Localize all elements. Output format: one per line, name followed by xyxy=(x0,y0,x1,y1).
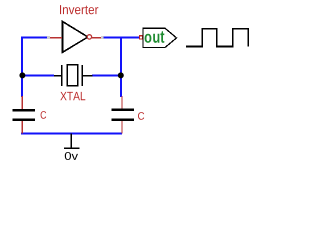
label Inverter xyxy=(60,5,98,14)
wire output horizontal xyxy=(101,37,140,39)
ground 0v symbol xyxy=(64,134,80,149)
inverter output pin stub xyxy=(92,37,101,39)
label XTAL xyxy=(60,92,85,100)
square wave annotation xyxy=(186,29,248,47)
capacitor C2 (right) xyxy=(112,96,134,134)
wire right vertical xyxy=(120,38,122,98)
inverter input pin stub xyxy=(50,37,62,39)
junction dot right xyxy=(118,72,124,78)
wire crystal row left xyxy=(22,75,54,77)
out tag xyxy=(143,28,177,47)
label C (left) xyxy=(41,111,47,119)
op-amp U1 inverter triangle xyxy=(63,22,88,53)
capacitor C1 (left) xyxy=(13,96,35,134)
wire crystal row right xyxy=(92,75,121,77)
pin end marker left xyxy=(47,36,50,39)
wire top-left horizontal xyxy=(21,37,50,39)
label C (right) xyxy=(138,112,144,120)
wire bottom horizontal xyxy=(21,133,122,135)
wire left vertical xyxy=(21,37,23,98)
out tag pin square xyxy=(140,36,143,39)
pin end marker right xyxy=(101,36,103,39)
inverter output bubble xyxy=(87,35,91,39)
label 0v xyxy=(65,152,78,160)
crystal XTAL xyxy=(54,65,92,86)
junction dot left xyxy=(19,72,25,78)
